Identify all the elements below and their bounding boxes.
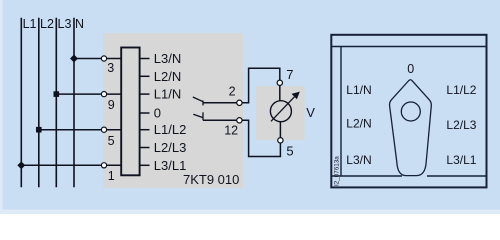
panel footer line left segment bbox=[331, 175, 402, 177]
junction on L2 bbox=[36, 127, 42, 133]
svg-text:L1/L2: L1/L2 bbox=[154, 122, 187, 137]
svg-text:L1: L1 bbox=[23, 17, 37, 31]
wire L3 vertical bbox=[55, 18, 57, 188]
wire from L3 to terminal 9 bbox=[56, 93, 121, 95]
contact blade upper bbox=[193, 97, 203, 102]
svg-text:L2/L3: L2/L3 bbox=[154, 140, 187, 155]
svg-text:0: 0 bbox=[407, 62, 414, 76]
voltmeter circle V bbox=[270, 101, 291, 122]
panel header line bbox=[331, 46, 487, 48]
svg-text:L3: L3 bbox=[58, 17, 72, 31]
panel left divider bbox=[340, 47, 342, 177]
svg-text:3: 3 bbox=[107, 61, 114, 75]
svg-text:I2_07613a: I2_07613a bbox=[334, 156, 341, 186]
svg-text:0: 0 bbox=[154, 106, 161, 121]
tick L3/L1 bbox=[140, 164, 150, 166]
tick L2/L3 bbox=[140, 147, 150, 149]
terminal 5 circle bbox=[101, 127, 106, 132]
terminal 5 circle (meter) bbox=[278, 138, 283, 143]
light edge strip left bbox=[0, 0, 3, 214]
light edge strip bottom bbox=[0, 210, 500, 215]
svg-text:12: 12 bbox=[224, 124, 238, 138]
svg-text:L2/L3: L2/L3 bbox=[446, 118, 476, 132]
wire terminal 5 back to terminal 12 bbox=[242, 120, 280, 156]
tick L1/N bbox=[140, 93, 150, 95]
voltmeter pointer arrowhead bbox=[292, 92, 300, 100]
svg-text:L1/N: L1/N bbox=[346, 83, 371, 97]
terminal 9 circle bbox=[101, 92, 106, 97]
svg-text:2: 2 bbox=[229, 85, 236, 99]
terminal 2 circle bbox=[237, 100, 242, 105]
svg-text:L3/N: L3/N bbox=[154, 51, 181, 66]
wire terminal 7 to meter bbox=[279, 86, 281, 101]
svg-text:L2/N: L2/N bbox=[346, 117, 371, 131]
svg-text:N: N bbox=[75, 17, 84, 31]
junction on N bbox=[70, 55, 78, 63]
svg-text:5: 5 bbox=[108, 134, 115, 148]
tick 0 bbox=[140, 112, 150, 114]
voltmeter pointer line bbox=[271, 97, 294, 122]
svg-text:9: 9 bbox=[108, 98, 115, 112]
wire terminal 2 to voltmeter terminal 7 bbox=[242, 68, 280, 103]
terminal 12 circle bbox=[237, 118, 242, 123]
wire contact upper to terminal 2 bbox=[203, 102, 239, 104]
terminal 1 circle bbox=[101, 163, 106, 168]
svg-text:L3/N: L3/N bbox=[346, 153, 371, 167]
knob center circle bbox=[401, 102, 420, 121]
wire meter to terminal 5 bbox=[279, 122, 281, 138]
wire from L2 to terminal 5 bbox=[39, 129, 121, 131]
terminal 7 circle bbox=[277, 80, 282, 85]
contact tick lower bbox=[202, 112, 204, 120]
svg-text:7: 7 bbox=[286, 67, 293, 82]
svg-text:5: 5 bbox=[286, 144, 293, 159]
svg-text:L3/L1: L3/L1 bbox=[154, 158, 187, 173]
terminal 3 circle bbox=[101, 56, 106, 61]
svg-text:L2: L2 bbox=[40, 17, 54, 31]
wire from L1 to terminal 1 bbox=[21, 164, 121, 166]
svg-text:7KT9 010: 7KT9 010 bbox=[183, 172, 239, 187]
wire from N to terminal 3 bbox=[74, 58, 121, 60]
tick L1/L2 bbox=[140, 129, 150, 131]
front panel outline bbox=[331, 35, 486, 188]
wire contact lower to terminal 12 bbox=[203, 119, 239, 121]
svg-text:L1/N: L1/N bbox=[154, 87, 181, 102]
wire L2 vertical bbox=[38, 18, 40, 188]
gray body of switch block 7KT9 010 bbox=[103, 33, 243, 188]
svg-text:L2/N: L2/N bbox=[154, 69, 181, 84]
gray body of voltmeter panel bbox=[256, 86, 305, 140]
selector knob bbox=[390, 80, 432, 176]
panel footer line right segment bbox=[427, 175, 487, 177]
svg-text:V: V bbox=[306, 105, 315, 120]
junction on L3 bbox=[54, 91, 60, 97]
contact blade lower bbox=[193, 114, 203, 117]
tick L3/N bbox=[140, 58, 150, 60]
svg-text:1: 1 bbox=[108, 169, 115, 183]
contact tick upper bbox=[202, 101, 204, 106]
svg-text:L1/L2: L1/L2 bbox=[446, 83, 476, 97]
switch block inner box bbox=[121, 48, 139, 176]
svg-text:L3/L1: L3/L1 bbox=[446, 153, 476, 167]
tick L2/N bbox=[140, 75, 150, 77]
wire N vertical bbox=[73, 18, 75, 188]
junction on L1 bbox=[17, 161, 25, 169]
wire L1 vertical bbox=[20, 18, 22, 188]
